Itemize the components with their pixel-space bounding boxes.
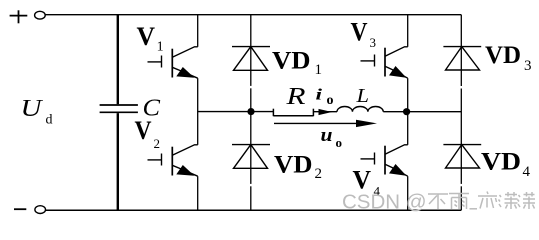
- wire right leg V4 emitter to bottom: [407, 176, 409, 210]
- diode VD3: [443, 47, 481, 70]
- watermark CJK glyphs: [428, 192, 535, 210]
- svg-text:VD: VD: [272, 48, 311, 75]
- wire R to inductor: [313, 111, 337, 113]
- diode VD1: [232, 47, 270, 71]
- svg-text:3: 3: [524, 58, 532, 74]
- svg-text:L: L: [355, 85, 369, 107]
- wire right leg V3 emitter to mid: [407, 78, 409, 111]
- 潇 1: [500, 195, 502, 197]
- svg-text:u: u: [321, 125, 333, 146]
- svg-text:3: 3: [370, 35, 377, 50]
- svg-text:4: 4: [523, 164, 531, 180]
- svg-text:o: o: [327, 93, 334, 108]
- transistor V2: [148, 145, 198, 176]
- wire diode leg 1 (VD1/VD2): [250, 15, 252, 86]
- wire left leg upper (V1 collector): [197, 15, 199, 47]
- wire top rail: [45, 14, 461, 16]
- 雨: [449, 193, 469, 195]
- diode VD4: [443, 145, 481, 168]
- wire left leg mid to V2 collector: [197, 112, 199, 145]
- transistor V4: [361, 145, 408, 176]
- diode VD2: [232, 145, 270, 169]
- transistor V3: [361, 47, 408, 78]
- transistor V1: [148, 47, 198, 78]
- node left mid wire: [198, 111, 274, 113]
- wire diode leg 2 (VD3/VD4): [460, 15, 462, 86]
- svg-text:1: 1: [157, 40, 164, 55]
- svg-text:i: i: [316, 87, 323, 104]
- wire right leg mid to V4 collector: [407, 112, 409, 145]
- voltage arrow uo: [274, 122, 358, 124]
- svg-text:VD: VD: [485, 42, 521, 69]
- svg-text:2: 2: [154, 136, 161, 151]
- svg-text:V: V: [351, 18, 368, 47]
- wire right leg upper (V3 collector): [407, 15, 409, 47]
- svg-text:R: R: [285, 84, 306, 110]
- resistor R: [273, 109, 313, 117]
- 潇 2: [519, 195, 521, 197]
- wire DC bus lower: [117, 113, 119, 210]
- svg-text:V: V: [137, 22, 156, 51]
- 亦: [487, 192, 488, 195]
- svg-text:CSDN @: CSDN @: [342, 191, 427, 214]
- svg-text:o: o: [336, 135, 343, 150]
- current arrow io: [319, 109, 333, 115]
- terminal circle top: [35, 11, 46, 19]
- wire DC bus upper: [117, 15, 119, 105]
- svg-text:2: 2: [315, 166, 323, 182]
- wire left leg V1 emitter to mid: [197, 78, 199, 111]
- svg-text:U: U: [21, 96, 44, 122]
- inductor L: [337, 107, 383, 112]
- svg-text:V: V: [135, 116, 152, 145]
- underscore: [470, 208, 478, 210]
- junction dot left: [247, 108, 254, 115]
- terminal circle bottom: [35, 206, 46, 214]
- svg-text:d: d: [46, 113, 53, 128]
- junction dot right: [403, 108, 410, 115]
- svg-text:1: 1: [315, 62, 323, 78]
- minus terminal sign: [14, 208, 26, 210]
- plus terminal sign: [10, 10, 28, 23]
- svg-text:VD: VD: [274, 152, 313, 179]
- wire left leg V2 emitter to bottom: [197, 176, 199, 210]
- wire bottom rail: [46, 209, 462, 211]
- svg-text:VD: VD: [481, 149, 521, 176]
- 不: [428, 193, 448, 195]
- capacitor C: [100, 105, 138, 112]
- wire inductor to right leg: [383, 111, 461, 113]
